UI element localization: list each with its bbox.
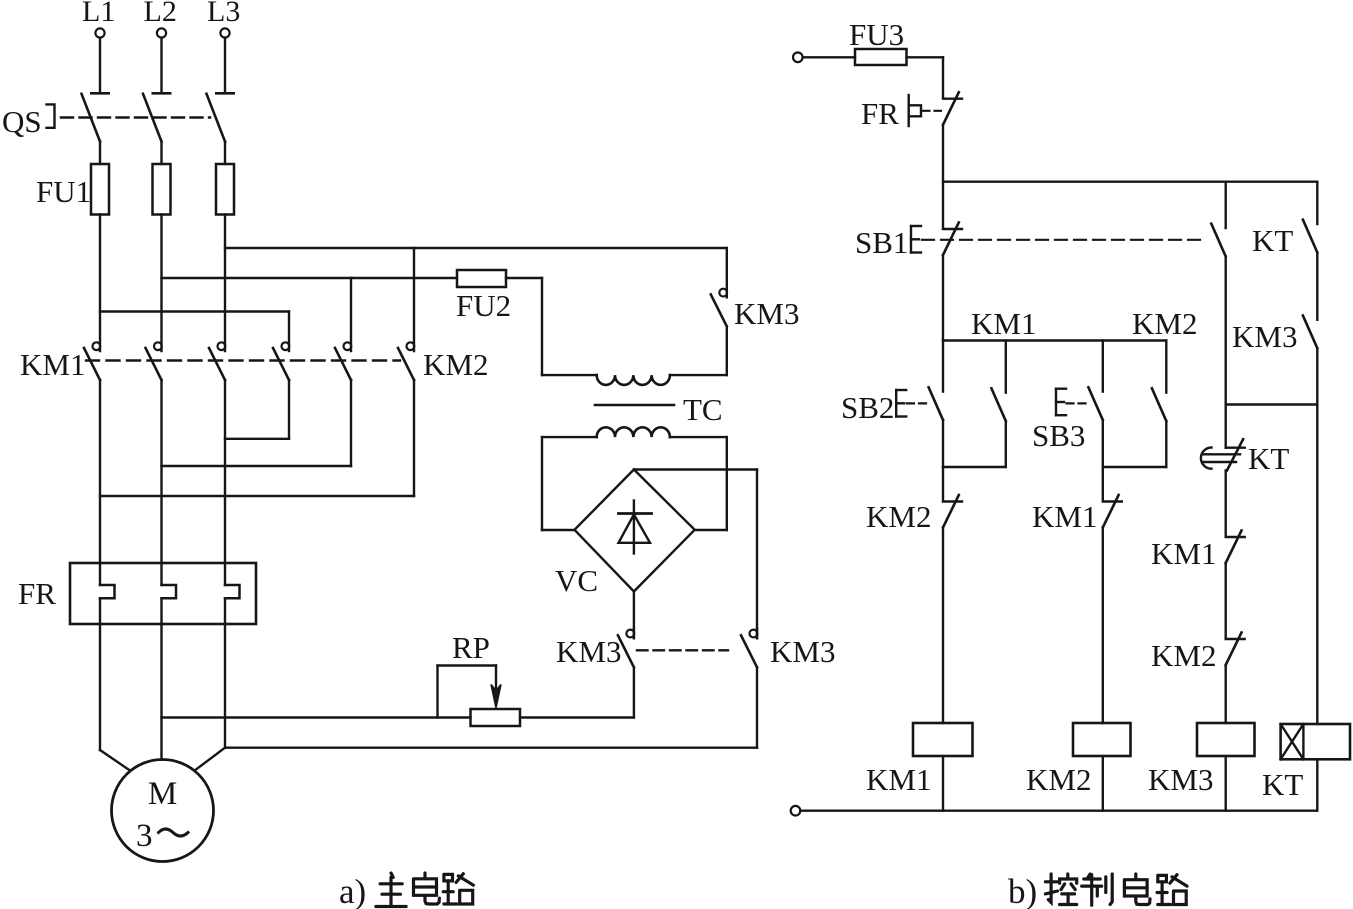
motor M circle <box>112 760 214 862</box>
wire KM2 NC to KM3 coil <box>1224 665 1226 723</box>
wire KT delay to KM1 NC <box>1224 470 1226 536</box>
wire to KM2 coil <box>1102 528 1104 724</box>
wire FU2 to transformer drop <box>506 277 542 279</box>
wire KM1 pole2 output <box>160 380 162 563</box>
switch QS pole 3 <box>216 92 233 95</box>
switch QS pole 2 <box>153 92 170 95</box>
switch QS pole 1 <box>91 92 108 95</box>
wire KM3 right to bottom line <box>756 667 758 747</box>
SB3 linkage dashes <box>1067 402 1088 404</box>
time relay KT delayed closing contact <box>1224 405 1226 448</box>
FR thermal element symbol <box>908 95 910 126</box>
wire SB2 output <box>942 420 944 467</box>
contactor KM1 main contact pole 3 <box>218 342 226 350</box>
wire KM2 pole1 output drop <box>288 380 290 439</box>
coil KM3 <box>1197 723 1255 756</box>
wire to KM1 coil <box>942 528 944 724</box>
wire SB2/KM1 join <box>943 466 1006 468</box>
wire KM2 pole2 crossover to L2 <box>162 465 352 467</box>
wire L3 FU1 to KM1 contact <box>224 215 226 352</box>
fuse FU1 pole 1 <box>91 164 109 215</box>
tilde symbol <box>159 829 189 836</box>
contactor KM1 main contact pole 1 <box>93 342 101 350</box>
wire KM2 pole3 feed drop <box>413 248 415 351</box>
transformer TC primary winding <box>542 374 597 376</box>
svg-text:KM2: KM2 <box>1132 306 1197 341</box>
svg-text:KM3: KM3 <box>1232 319 1297 354</box>
SB2 linkage dashes <box>907 402 928 404</box>
wire motor W diagonal <box>196 748 225 770</box>
svg-text:L3: L3 <box>207 0 240 28</box>
contactor KM1 NC contact braking branch <box>1226 536 1245 538</box>
wire braking bottom return line <box>225 747 757 749</box>
wire bridge positive output <box>634 468 757 470</box>
control top terminal <box>793 53 803 63</box>
wire KM3 aux output <box>1316 348 1318 404</box>
SB1 linkage dashed line <box>922 239 1205 241</box>
svg-text:RP: RP <box>452 630 490 665</box>
wire L2 FU1 to KM1 contact <box>160 215 162 352</box>
svg-text:KM1: KM1 <box>20 347 85 382</box>
contactor KM2 NC contact braking branch <box>1226 638 1245 640</box>
svg-text:KM3: KM3 <box>556 634 621 669</box>
wire FR to motor V <box>160 624 162 760</box>
KM3 braking linkage dashed line <box>637 649 728 651</box>
wire KM1 pole1 output <box>99 380 101 563</box>
wire KM2 pole2 output drop <box>350 380 352 466</box>
svg-text:b): b) <box>1008 872 1037 909</box>
pushbutton SB3 NO contact <box>1102 341 1104 392</box>
svg-text:KM3: KM3 <box>734 296 799 331</box>
contactor KM3 main contact (transformer feed) <box>726 248 728 297</box>
svg-text:KM1: KM1 <box>971 306 1036 341</box>
svg-text:FU2: FU2 <box>456 288 511 323</box>
transformer TC core <box>595 404 674 407</box>
svg-text:FR: FR <box>18 576 56 611</box>
svg-text:KM3: KM3 <box>1148 762 1213 797</box>
svg-text:L1: L1 <box>82 0 115 28</box>
fuse FU3 <box>855 49 907 65</box>
wire RP line right segment <box>520 716 634 718</box>
svg-text:SB3: SB3 <box>1032 418 1085 453</box>
wire KM1 coil to bottom <box>942 756 944 811</box>
wire KM1 aux output <box>1005 421 1007 467</box>
svg-text:TC: TC <box>683 392 723 427</box>
wire terminal to FU3 <box>803 56 855 58</box>
svg-text:KM1: KM1 <box>1032 499 1097 534</box>
thermal relay FR NC contact <box>943 97 962 99</box>
wire KM branch bus y=340.5 <box>943 339 1166 341</box>
svg-text:L2: L2 <box>144 0 177 28</box>
wire L2 QS to FU1 <box>160 142 162 165</box>
svg-text:KT: KT <box>1248 441 1289 476</box>
svg-text:SB1: SB1 <box>855 225 908 260</box>
contactor KM1 main contact pole 2 <box>154 342 162 350</box>
wire FR to motor U <box>99 624 101 750</box>
svg-text:KM2: KM2 <box>423 347 488 382</box>
wire KM2 pole1 feed drop <box>288 312 290 352</box>
contactor KM2 main contact pole 1 <box>282 342 290 350</box>
wire KM2 pole1 crossover to L3 <box>225 438 289 440</box>
wire KM2 pole3 crossover to L1 <box>100 495 414 497</box>
node L1 terminal <box>95 28 104 37</box>
wire motor U diagonal <box>100 750 129 770</box>
wire FU3 to FR contact <box>907 56 944 58</box>
control bottom terminal <box>791 806 801 816</box>
caption a) Chinese: zhu dian lu <box>376 873 474 907</box>
svg-text:QS: QS <box>2 104 42 139</box>
wire bridge negative output <box>633 592 635 639</box>
svg-text:FU3: FU3 <box>849 17 904 52</box>
contactor KM3 braking contact right <box>756 629 758 639</box>
contactor KM2 main contact pole 3 <box>407 342 415 350</box>
fuse FU1 pole 3 <box>216 164 234 215</box>
svg-text:KM1: KM1 <box>1151 536 1216 571</box>
wire KM2 coil to bottom <box>1102 756 1104 811</box>
wire L3 terminal drop <box>224 38 226 94</box>
svg-text:a): a) <box>339 872 366 909</box>
wire right branch join y=404.5 <box>1226 403 1318 405</box>
FR linkage dashes <box>923 110 942 112</box>
svg-text:SB2: SB2 <box>841 390 894 425</box>
contactor KM2 main contact pole 2 <box>344 342 352 350</box>
wire L1 FU1 to KM1 contact <box>99 215 101 352</box>
contactor KM1 interlock NC contact <box>1102 467 1104 501</box>
coil KT time relay <box>1281 724 1350 759</box>
wire SB3/KM2 join <box>1103 466 1167 468</box>
contactor KM2 auxiliary NO contact <box>1165 341 1167 393</box>
wire SB1 NO output <box>1224 256 1226 404</box>
contactor KM1 auxiliary NO contact <box>1005 341 1007 393</box>
wire KM3 coil to bottom <box>1224 756 1226 811</box>
svg-text:KM2: KM2 <box>866 499 931 534</box>
svg-text:KM1: KM1 <box>866 762 931 797</box>
switch QS handle symbol <box>47 104 55 127</box>
thermal relay FR box <box>70 563 256 624</box>
wire L2 terminal drop <box>160 38 162 94</box>
KT delay symbol <box>1201 448 1212 469</box>
fuse FU1 pole 2 <box>153 164 171 215</box>
wire FR contact to bus <box>942 125 944 229</box>
coil KM1 <box>913 723 973 756</box>
wire FR to motor W <box>224 624 226 748</box>
rheostat RP wiper arrow <box>495 666 497 693</box>
svg-text:KM2: KM2 <box>1026 762 1091 797</box>
svg-text:KT: KT <box>1262 767 1303 802</box>
thermal relay FR heater pole 2 <box>160 563 162 585</box>
thermal relay FR heater pole 1 <box>99 563 101 585</box>
rheostat RP wiper bypass <box>436 666 438 718</box>
contactor KM3 auxiliary contact right branch <box>1303 316 1317 349</box>
node L3 terminal <box>220 28 229 37</box>
pushbutton SB1 NC contact <box>943 228 962 230</box>
rheostat RP body <box>471 709 521 726</box>
wire L3 feed to KM3 and KM2 pole3, y=248 <box>225 247 727 249</box>
svg-text:KT: KT <box>1252 223 1293 258</box>
node L2 terminal <box>157 28 166 37</box>
contactor KM2 interlock NC contact <box>942 467 944 501</box>
wire secondary right drop <box>726 437 728 530</box>
wire KM1 pole3 output <box>224 380 226 563</box>
rectifier VC bridge diamond <box>575 470 695 592</box>
wire L1 QS to FU1 <box>99 142 101 165</box>
wire control bottom bus <box>800 810 1317 812</box>
KM1-KM2 linkage dashed line <box>86 359 400 361</box>
wire KM3 to transformer primary <box>726 326 728 375</box>
svg-text:FU1: FU1 <box>36 174 91 209</box>
wire KT branch drop <box>1316 405 1318 725</box>
pushbutton SB1 NO contact (braking) <box>1224 182 1226 228</box>
wire RP line left segment <box>162 716 471 718</box>
wire secondary left drop <box>541 437 543 530</box>
contactor KM3 braking contact left <box>633 629 635 639</box>
wire control top bus y=181.7 <box>943 180 1317 182</box>
thermal relay FR heater pole 3 <box>224 563 226 585</box>
wire SB3 output <box>1102 420 1104 467</box>
svg-text:M: M <box>148 776 177 812</box>
wire KM3 left to RP line <box>633 667 635 717</box>
wire L1 feed to KM2 pole1, y=311.5 <box>100 310 289 312</box>
rectifier VC diode <box>633 501 635 554</box>
caption b) Chinese: kong zhi dian lu <box>1045 874 1187 905</box>
wire KM1 NC to KM2 NC <box>1224 563 1226 638</box>
pushbutton SB2 actuator <box>895 390 897 417</box>
pushbutton SB2 NO contact <box>942 341 944 392</box>
svg-text:KM2: KM2 <box>1151 638 1216 673</box>
wire KM2 aux output <box>1165 421 1167 467</box>
svg-text:3: 3 <box>136 818 153 854</box>
wire KT coil to bottom <box>1316 759 1318 810</box>
wire L3 QS to FU1 <box>224 142 226 165</box>
wire L2 feed through FU2, y=278 <box>162 277 458 279</box>
wire L1 terminal drop <box>99 38 101 94</box>
fuse FU2 <box>457 270 506 287</box>
transformer TC secondary winding <box>542 436 597 438</box>
time relay KT delayed NC contact top right <box>1316 182 1318 224</box>
wire SB1 to KM bus <box>942 256 944 341</box>
svg-text:VC: VC <box>555 563 598 598</box>
wire KM2 pole3 output drop <box>413 380 415 496</box>
svg-text:KM3: KM3 <box>770 634 835 669</box>
pushbutton SB1 actuator <box>910 226 912 253</box>
wire KM2 pole2 feed drop <box>350 278 352 351</box>
coil KM2 <box>1073 723 1131 756</box>
pushbutton SB3 actuator <box>1055 389 1057 416</box>
svg-text:FR: FR <box>861 96 899 131</box>
wire KT contact to KM3 contact <box>1316 252 1318 319</box>
switch QS linkage dashed line <box>61 116 210 118</box>
